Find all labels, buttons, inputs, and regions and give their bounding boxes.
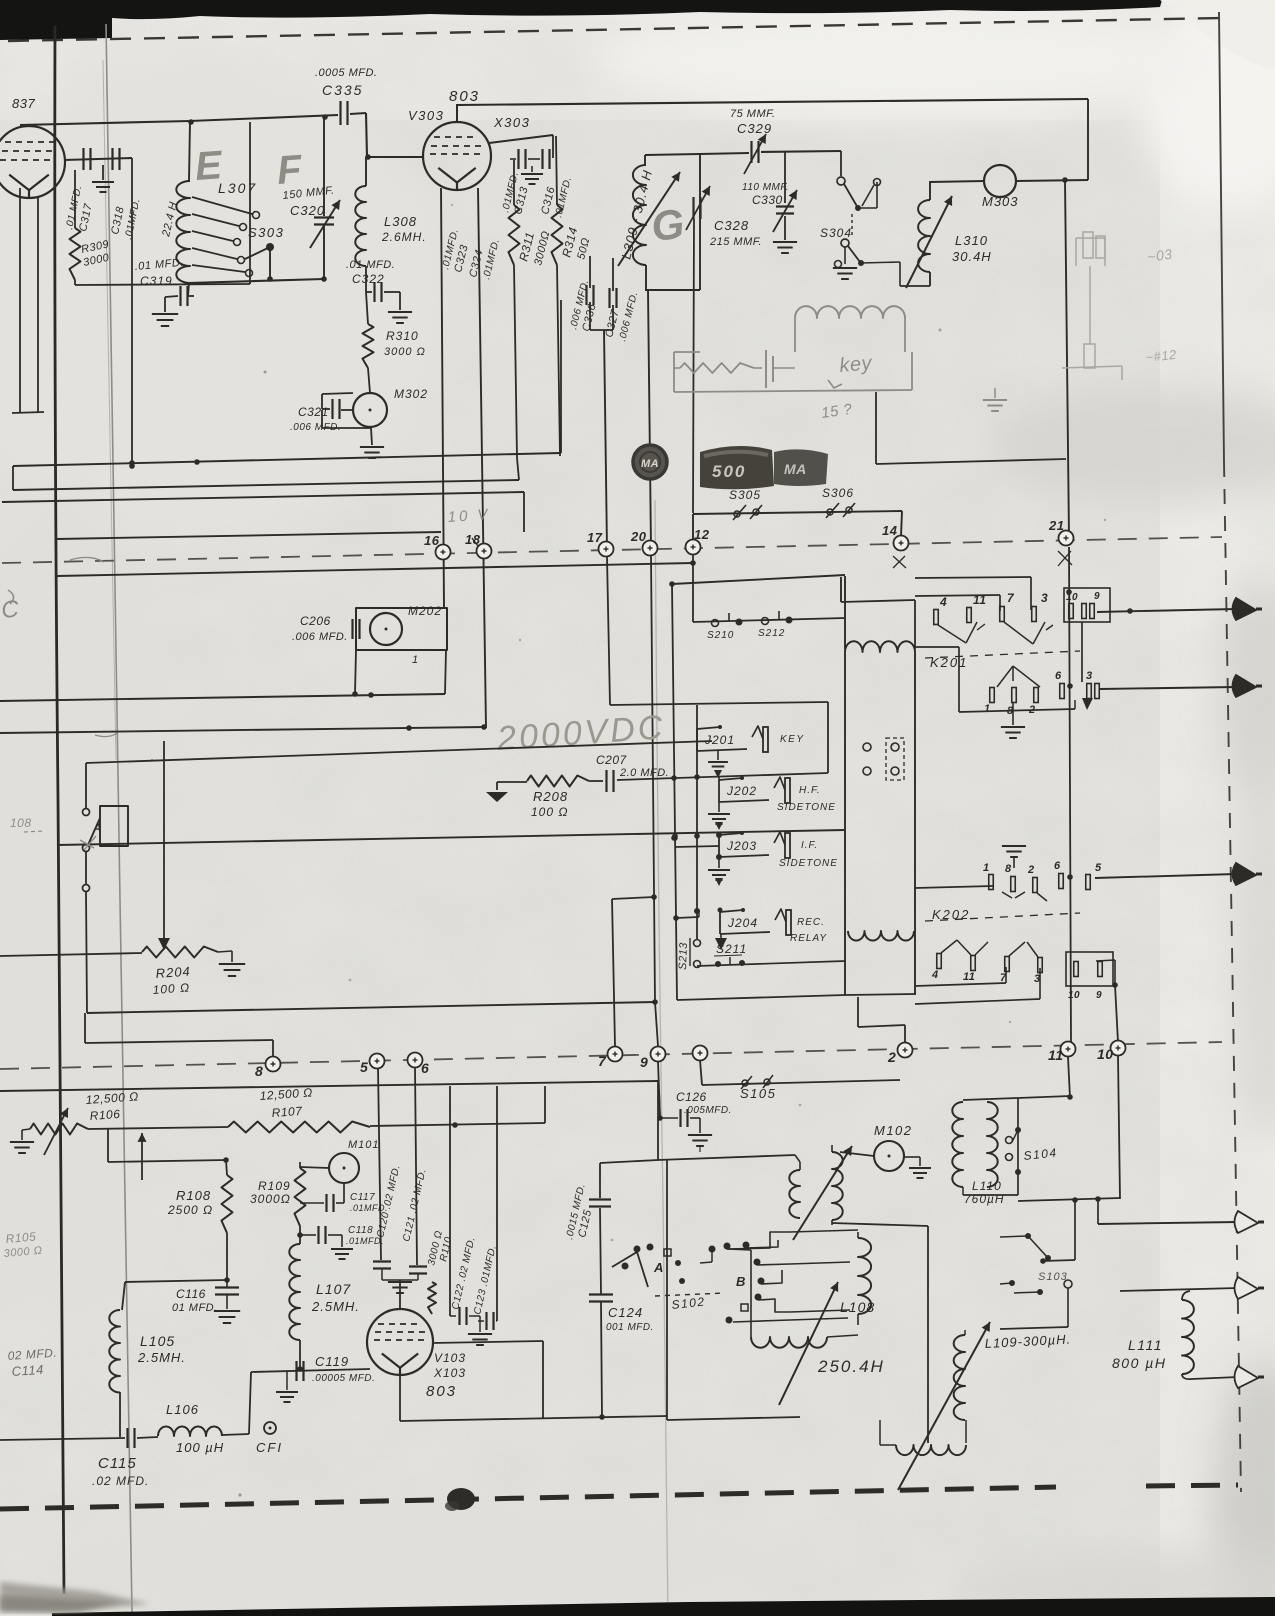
svg-text:837: 837 [12, 96, 35, 111]
tee to terminal 7 riser [612, 897, 654, 899]
ground below M302 [371, 428, 372, 445]
inductor L106 [137, 1437, 158, 1438]
inductor L307 [189, 121, 190, 181]
svg-text:.02 MFD.: .02 MFD. [92, 1474, 149, 1488]
K202 pin 6 [1059, 874, 1064, 889]
svg-text:C335: C335 [322, 82, 363, 98]
inductor L110 right winding [987, 1102, 998, 1187]
capacitor C121 [409, 1265, 427, 1267]
wire grid node to tube [367, 156, 424, 158]
scan specks [264, 371, 267, 374]
dashed feed-through line bottom [0, 1042, 1222, 1069]
dashed top border [8, 18, 1222, 41]
wire to terminal 8 [84, 1013, 86, 1043]
wire screen to caps [489, 135, 553, 143]
ground below C319 [152, 313, 178, 315]
ground left of R106 [10, 1141, 34, 1143]
wire to cone 4 [1097, 1199, 1099, 1224]
wire K202 pin feeders [915, 983, 1006, 986]
capacitor C125 [589, 1198, 611, 1200]
svg-text:2.0 MFD.: 2.0 MFD. [619, 767, 669, 779]
svg-text:100 Ω: 100 Ω [531, 805, 568, 819]
resistor R208 [497, 781, 527, 783]
capacitor C118 [300, 1234, 316, 1236]
arrow below J204 [720, 934, 722, 938]
svg-text:RELAY: RELAY [790, 933, 827, 944]
svg-text:L111: L111 [1128, 1337, 1163, 1353]
svg-text:R107: R107 [271, 1104, 303, 1120]
meter M302 [368, 368, 370, 393]
switch S103 taps [1025, 1233, 1031, 1239]
jack J202 bracket stub [718, 777, 720, 780]
resistor R109 [299, 1162, 301, 1168]
wire S304 to L310 block [858, 207, 877, 209]
svg-text:X303: X303 [493, 115, 530, 130]
wire R107 to riser [370, 1123, 545, 1126]
svg-text:C206: C206 [300, 614, 331, 628]
svg-text:L307: L307 [218, 180, 257, 196]
wire R106 R107 [88, 1127, 228, 1129]
svg-text:REC.: REC. [797, 917, 825, 928]
svg-text:J202: J202 [726, 784, 757, 798]
wire caps to grounds [510, 158, 516, 160]
wire L108 left lead [750, 1250, 752, 1325]
potentiometer R106 [30, 1124, 88, 1135]
svg-text:S103: S103 [1038, 1271, 1068, 1283]
svg-text:C322: C322 [352, 272, 385, 286]
svg-text:3000Ω: 3000Ω [250, 1192, 291, 1206]
resistor R311 [513, 160, 515, 205]
svg-text:7: 7 [1007, 591, 1015, 605]
svg-text:2.5MH.: 2.5MH. [137, 1350, 186, 1365]
capacitor C206 [351, 619, 353, 639]
svg-text:800 µH: 800 µH [1112, 1355, 1166, 1371]
riser C121 [415, 1067, 417, 1265]
svg-text:R105: R105 [5, 1229, 37, 1246]
stamp MA roundel [633, 445, 667, 479]
pencil key resistor [680, 363, 754, 373]
variable capacitor C328 [692, 197, 694, 219]
relay body bottom [845, 994, 915, 995]
svg-text:S211: S211 [716, 942, 747, 956]
svg-text:A: A [653, 1260, 664, 1275]
terminal20 riser [648, 290, 651, 548]
svg-text:2500 Ω: 2500 Ω [167, 1203, 213, 1217]
wire J203 feed [675, 846, 719, 847]
ground below C118 [331, 1248, 353, 1250]
solid bus below bottom terminals [0, 1081, 658, 1091]
svg-text:R208: R208 [533, 789, 568, 804]
output cone 2 [1233, 675, 1257, 697]
svg-text:9: 9 [1096, 990, 1102, 1001]
bottom dashed border [0, 1487, 1056, 1509]
center fold crease [655, 500, 668, 1616]
switch S104 [1006, 1137, 1013, 1144]
svg-text:F: F [276, 147, 305, 193]
wire left to R204 [0, 953, 142, 956]
svg-text:X103: X103 [433, 1366, 466, 1380]
svg-text:5: 5 [1095, 862, 1102, 874]
riser to bus [544, 1086, 546, 1123]
svg-text:S210: S210 [707, 630, 734, 641]
K202 pins 10 9 box [1066, 952, 1113, 986]
inductor L310 with arrow [929, 181, 931, 200]
svg-text:108: 108 [10, 816, 32, 830]
svg-text:S306: S306 [822, 486, 854, 500]
svg-text:803: 803 [426, 1383, 457, 1400]
wire bus bottom to relay [677, 995, 845, 1000]
svg-text:4: 4 [939, 595, 947, 609]
svg-text:C119: C119 [315, 1354, 349, 1369]
L109 arrow [898, 1322, 990, 1490]
capacitor C115 [0, 1438, 125, 1440]
capacitor C319 [188, 283, 189, 296]
tube V303 [423, 122, 491, 190]
wire riser 11 to L110 box [1068, 1057, 1070, 1098]
svg-text:C116: C116 [176, 1287, 206, 1301]
svg-text:.005MFD.: .005MFD. [684, 1105, 732, 1116]
ground above K202 contacts [1002, 845, 1026, 847]
wire V103 bottom to bus [399, 1375, 401, 1421]
svg-text:SIDETONE: SIDETONE [777, 802, 836, 813]
svg-text:L108: L108 [840, 1299, 875, 1315]
svg-text:J203: J203 [726, 839, 757, 853]
svg-text:MA: MA [641, 458, 659, 470]
R204 wiper arrow [163, 741, 165, 938]
wire 837 cathode left [19, 188, 21, 412]
wire cathode bus [251, 1369, 370, 1372]
ground below J201 [717, 751, 719, 760]
relay K201 coil [840, 577, 842, 602]
K202 pin 11b [971, 956, 976, 971]
capacitor C119 [295, 1361, 297, 1381]
svg-text:.0005 MFD.: .0005 MFD. [315, 67, 377, 79]
capacitor C316 [541, 149, 543, 169]
svg-text:11: 11 [1048, 1047, 1064, 1063]
capacitor C207 [589, 780, 603, 782]
terminal 2 [898, 1043, 913, 1058]
wire K201 to cone 1 [1097, 609, 1236, 612]
relay K202 coil [848, 931, 914, 941]
wire bundle line 1 [13, 453, 561, 466]
svg-text:C329: C329 [737, 121, 772, 136]
ground below J203 [718, 857, 720, 868]
L110 box wires [963, 1098, 1018, 1100]
S102 fan wires [727, 1232, 790, 1249]
pencil marks left edge [70, 557, 104, 562]
jack J203 IF sidetone [718, 835, 720, 857]
svg-text:11: 11 [963, 971, 975, 983]
stamp MA smudge [774, 449, 828, 486]
K201 pin 1 [990, 688, 995, 703]
terminal 18 [477, 544, 492, 559]
svg-text:C330: C330 [752, 193, 783, 207]
inductor L308 [365, 157, 367, 186]
svg-text:C328: C328 [714, 218, 749, 233]
long wire y839 [57, 830, 845, 845]
svg-text:R310: R310 [386, 329, 419, 343]
svg-text:L105: L105 [140, 1333, 175, 1349]
ground left of R208 [496, 782, 498, 790]
L307 box bottom wire [188, 279, 324, 283]
switch S304 [837, 177, 845, 185]
riser terminal 9 [655, 1002, 658, 1046]
capacitor C318 [111, 148, 113, 170]
svg-text:6: 6 [421, 1060, 429, 1076]
svg-text:S212: S212 [758, 628, 785, 639]
terminal 11 [1061, 1042, 1076, 1057]
switch S103 pole [1064, 1280, 1072, 1288]
K202 pin 2 [1033, 878, 1038, 893]
variable capacitor C330 [784, 152, 786, 203]
switch A contacts [83, 809, 90, 816]
svg-text:2: 2 [887, 1049, 896, 1065]
svg-text:M303: M303 [982, 194, 1019, 209]
wire riser 9 to transformer [658, 1061, 660, 1118]
ground below S304 [844, 247, 846, 264]
inductor L105 [109, 1310, 120, 1393]
inductor L107 [299, 1226, 301, 1244]
svg-text:K201: K201 [930, 655, 968, 670]
svg-text:21: 21 [1048, 518, 1064, 533]
R107 wiper arrow [141, 1133, 143, 1180]
ground K201 contacts [1012, 702, 1014, 725]
inductor L309 with tuning arrow [644, 155, 646, 165]
L108 tap leads [790, 1230, 858, 1232]
terminal 5 [370, 1054, 385, 1069]
wire R309 bottom to branch [74, 280, 76, 285]
wire C329 to S304 corner [761, 151, 841, 152]
K201 pin 2 [1034, 688, 1039, 703]
svg-text:M101: M101 [348, 1139, 380, 1151]
meter M303 [984, 165, 1016, 197]
svg-text:.006 MFD.: .006 MFD. [292, 631, 348, 643]
wire to R108 feed [108, 1160, 226, 1162]
wire K201 lower to cone 2 [1100, 687, 1236, 689]
svg-text:key: key [839, 352, 874, 377]
terminal 6 [408, 1053, 423, 1068]
variable capacitor C329 [750, 141, 752, 163]
wire transformer bottom to L109 riser [832, 1223, 928, 1226]
svg-text:3000 Ω: 3000 Ω [384, 346, 426, 358]
inductor L109 vertical winding [954, 1335, 965, 1420]
svg-text:C115: C115 [98, 1455, 137, 1472]
wire bundle line 2 [13, 480, 519, 490]
svg-text:L106: L106 [166, 1402, 199, 1417]
right dashed border line [1224, 462, 1241, 1492]
wire 12 to relay [692, 555, 694, 622]
wire riser 10 down [1118, 1056, 1120, 1199]
svg-text:C114: C114 [11, 1362, 44, 1379]
svg-text:V303: V303 [408, 108, 444, 123]
svg-text:J204: J204 [727, 916, 758, 930]
wire top bus with C335 [190, 115, 338, 121]
svg-text:A: A [92, 821, 102, 835]
wire L107 bottom [299, 1340, 301, 1369]
relay K201 dashed actuator [925, 651, 1080, 658]
switch S303 taps [192, 197, 252, 214]
svg-text:M302: M302 [394, 387, 428, 401]
meter M102 [874, 1141, 904, 1171]
svg-text:8: 8 [255, 1063, 263, 1079]
pencil ground faint [983, 399, 1007, 401]
left fold crease [106, 24, 132, 1612]
capacitor C322 [365, 266, 367, 292]
ground below C330 [773, 241, 797, 243]
left bus vertical to jacks [672, 584, 677, 1000]
svg-text:S304: S304 [820, 226, 852, 240]
svg-text:250.4H: 250.4H [817, 1357, 885, 1376]
capacitor C335 [339, 101, 341, 125]
switch A leads [85, 763, 87, 808]
wire L105 to C115 [119, 1392, 121, 1437]
terminal unnumbered [693, 1046, 708, 1061]
M202 box [356, 608, 447, 650]
output cone 4 [1235, 1211, 1259, 1233]
riser C120 [378, 1068, 381, 1260]
svg-text:100 Ω: 100 Ω [152, 980, 190, 997]
svg-text:SIDETONE: SIDETONE [779, 858, 838, 869]
bottom black scan bar [52, 1597, 1275, 1616]
right solid border line [1219, 12, 1224, 462]
switch A box [100, 806, 128, 846]
inductor L108 bottom winding [750, 1325, 752, 1337]
svg-text:R108: R108 [176, 1188, 211, 1203]
capacitor C124 [589, 1293, 613, 1295]
svg-text:L310: L310 [955, 233, 988, 248]
wire M302 riser joins [560, 300, 562, 453]
switch S303 arm [266, 243, 274, 251]
svg-text:17: 17 [587, 530, 603, 545]
K202 pin 1 [989, 875, 994, 890]
jack J202 HF sidetone [718, 780, 720, 802]
svg-text:75 MMF.: 75 MMF. [730, 108, 775, 120]
wire R204 to ground [218, 951, 232, 952]
svg-text:11: 11 [973, 593, 986, 607]
svg-text:C207: C207 [596, 753, 628, 767]
inductor L110 left winding [952, 1102, 963, 1187]
capacitor C126 [659, 1090, 660, 1118]
dashed feed-through line [2, 537, 1222, 563]
svg-text:3: 3 [1041, 591, 1048, 605]
svg-text:L110: L110 [972, 1179, 1002, 1193]
long solid wire below terminals [57, 563, 693, 576]
svg-text:.01 MFD.: .01 MFD. [346, 259, 395, 271]
capacitor C313 [517, 149, 519, 169]
relay body outline [844, 652, 846, 995]
K201 pin 8 [1012, 688, 1017, 703]
svg-text:C321: C321 [298, 405, 329, 419]
svg-text:M202: M202 [408, 604, 442, 618]
switch S210 [712, 620, 719, 627]
pencil faint right components [1076, 237, 1105, 239]
top scan edge (black) [0, 0, 1162, 40]
ground below C119 [286, 1371, 288, 1390]
wire V103 right [433, 1341, 543, 1343]
wire V303 plate to top bus [456, 104, 458, 122]
terminal 7 [608, 1047, 623, 1062]
node main left vertical [131, 158, 133, 467]
ground right of M102 [904, 1156, 920, 1158]
resistor R309 [74, 170, 76, 228]
svg-text:B: B [736, 1274, 746, 1289]
wire switch A lower run [86, 892, 87, 1013]
svg-text:10 V: 10 V [447, 506, 491, 526]
wire K202 to cone 3 [1095, 874, 1236, 878]
output cone 3 [1233, 863, 1257, 885]
ground below C126 [688, 1134, 712, 1136]
potentiometer R204 [142, 947, 218, 958]
switch S105 [742, 1080, 748, 1086]
svg-text:9: 9 [1094, 591, 1100, 602]
svg-text:C124: C124 [608, 1305, 643, 1320]
capacitor C327 [612, 258, 614, 291]
wire L309 box to C329 [700, 153, 749, 154]
wire S104 bottom row [1018, 1198, 1120, 1201]
wire cone5 row [1120, 1288, 1238, 1291]
wire V103 top [399, 1280, 401, 1309]
wire 837 grid right [64, 158, 132, 160]
ground below C322 [388, 311, 412, 313]
terminal 21 [1059, 531, 1074, 546]
svg-text:1: 1 [984, 703, 991, 715]
left solid border line [55, 26, 64, 1594]
wire tap vertical [1074, 1200, 1076, 1260]
wire bundle line 3 [2, 492, 524, 502]
svg-text:6: 6 [1055, 670, 1062, 682]
svg-text:2: 2 [1028, 704, 1036, 716]
long vertical 21 to 11 [1069, 547, 1071, 1042]
switch S102 wafer A [634, 1246, 641, 1253]
svg-text:14: 14 [882, 523, 898, 538]
riser terminal 10 upper [1096, 960, 1115, 961]
transformer T101 secondary [832, 1152, 843, 1220]
riser 20 lower [651, 556, 655, 1002]
svg-text:1: 1 [412, 654, 419, 666]
transformer tuning arrow [793, 1146, 852, 1240]
svg-text:M102: M102 [874, 1123, 913, 1138]
svg-text:C118: C118 [348, 1225, 373, 1236]
svg-text:4: 4 [931, 969, 939, 981]
svg-text:3: 3 [1086, 670, 1093, 682]
K202 pin 7b [1005, 957, 1010, 972]
output cone 1 [1233, 598, 1257, 620]
resistor R310 [366, 292, 368, 324]
svg-text:L107: L107 [316, 1281, 351, 1297]
terminal 14 [894, 536, 909, 551]
ground below C120 C121 [381, 1269, 383, 1280]
resistor R108 [226, 1160, 227, 1175]
terminal 12 [686, 540, 701, 555]
svg-text:C320: C320 [290, 203, 325, 218]
svg-text:6: 6 [1054, 860, 1061, 872]
wire switch A feed line [86, 741, 712, 763]
wire K202 upper row [915, 886, 993, 888]
svg-text:16: 16 [424, 533, 440, 548]
big box left edge [666, 1160, 668, 1420]
meter M202 [370, 613, 402, 645]
K201 lower contact row [915, 646, 959, 648]
long top bus to M303 side [457, 99, 1088, 105]
switch S102 dashed arc [655, 1293, 725, 1296]
jack J204 rec relay [719, 912, 721, 934]
svg-text:2: 2 [1027, 864, 1035, 876]
svg-text:C319: C319 [140, 274, 173, 288]
riser C123 [496, 1086, 498, 1321]
svg-text:10: 10 [1068, 990, 1080, 1001]
resistor R314 [556, 136, 557, 205]
bottom-left gray smudge [0, 1582, 150, 1612]
